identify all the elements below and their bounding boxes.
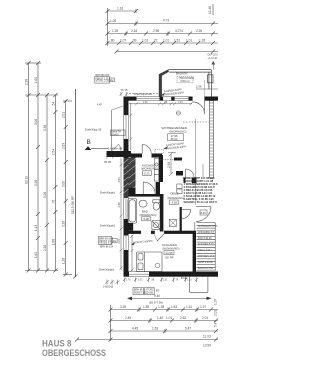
svg-text:BALKON: BALKON bbox=[176, 72, 187, 76]
long arrow dimension 9.40 bbox=[128, 297, 207, 299]
svg-text:1.39: 1.39 bbox=[112, 29, 118, 33]
ceiling symbol circle living bbox=[176, 111, 180, 115]
niche/duct wall mass bbox=[129, 158, 136, 197]
svg-text:312.5 OK RF: 312.5 OK RF bbox=[71, 196, 75, 215]
bed bbox=[137, 252, 163, 272]
svg-text:1.01: 1.01 bbox=[163, 39, 169, 43]
legend boxes bottom bbox=[133, 288, 154, 295]
svg-text:13.99: 13.99 bbox=[203, 344, 211, 348]
svg-text:(WOHNUNG): (WOHNUNG) bbox=[163, 246, 180, 250]
svg-text:2.38: 2.38 bbox=[117, 202, 121, 208]
svg-text:1.88: 1.88 bbox=[51, 239, 55, 245]
stair text smudges bbox=[198, 225, 218, 270]
svg-text:BAD 5.96 88: BAD 5.96 88 bbox=[198, 237, 212, 240]
interior wall horizontal (living/south of west wing) bbox=[131, 154, 162, 158]
door hall to right room bbox=[182, 210, 191, 219]
neighbor door box bbox=[200, 210, 207, 215]
wall bath/bedroom bbox=[124, 231, 197, 234]
svg-text:2.01: 2.01 bbox=[202, 316, 208, 320]
svg-text:2.26: 2.26 bbox=[43, 245, 47, 251]
svg-text:3.274: 3.274 bbox=[175, 29, 183, 33]
svg-text:.80: .80 bbox=[110, 39, 115, 43]
svg-text:3.06: 3.06 bbox=[34, 119, 38, 125]
dashed line under top-right door bbox=[183, 121, 209, 123]
svg-text:1.01: 1.01 bbox=[138, 280, 143, 282]
bathtub bbox=[128, 199, 137, 224]
svg-text:1.01: 1.01 bbox=[166, 316, 172, 320]
legend boxes top left bbox=[95, 77, 115, 84]
svg-text:1.63: 1.63 bbox=[152, 327, 158, 331]
svg-text:B©: B© bbox=[156, 290, 160, 293]
svg-text:60/60: 60/60 bbox=[112, 132, 119, 136]
bath top wall bbox=[129, 194, 164, 197]
svg-text:1.62: 1.62 bbox=[34, 252, 38, 258]
svg-text:2.45: 2.45 bbox=[125, 316, 131, 320]
svg-text:2.06: 2.06 bbox=[196, 85, 202, 89]
bottom dimension block bbox=[75, 305, 218, 342]
dimension chain left D bbox=[53, 93, 57, 273]
svg-text:5.47: 5.47 bbox=[214, 321, 218, 327]
svg-text:2.62: 2.62 bbox=[180, 316, 186, 320]
svg-text:5.23: 5.23 bbox=[144, 171, 150, 175]
svg-text:1.97: 1.97 bbox=[214, 299, 218, 305]
interior dim row under top wall bbox=[129, 102, 193, 105]
kitchen-bath connector wall bbox=[156, 182, 160, 194]
west outer dim line bbox=[120, 158, 123, 270]
legend boxes mid-left bbox=[98, 237, 117, 245]
svg-text:5.96: 5.96 bbox=[144, 217, 150, 221]
svg-text:1-DREH 84: 1-DREH 84 bbox=[108, 147, 123, 151]
svg-text:DIELE 3.93 1: DIELE 3.93 1 bbox=[198, 249, 213, 252]
balcony door in top wall bbox=[163, 97, 171, 101]
svg-text:10.19: 10.19 bbox=[25, 176, 29, 184]
svg-text:1.16: 1.16 bbox=[117, 7, 123, 11]
svg-text:1.97: 1.97 bbox=[200, 305, 206, 309]
svg-text:1.89: 1.89 bbox=[143, 305, 149, 309]
svg-text:(WOHNUNG): (WOHNUNG) bbox=[168, 196, 185, 200]
svg-text:.76: .76 bbox=[51, 200, 55, 205]
svg-text:BALKON 3.50: BALKON 3.50 bbox=[198, 267, 214, 270]
svg-text:ANKLEIDE 3.3: ANKLEIDE 3.3 bbox=[198, 231, 214, 234]
neighbor room text rows bbox=[183, 176, 218, 204]
svg-text:49.02: 49.02 bbox=[171, 137, 178, 141]
svg-text:4.45: 4.45 bbox=[132, 327, 138, 331]
exterior wall left bbox=[124, 97, 129, 277]
svg-text:124 88: 124 88 bbox=[146, 292, 154, 295]
svg-text:Dreh/Kipp(r): Dreh/Kipp(r) bbox=[100, 224, 115, 228]
svg-text:ABST 2.40 88: ABST 2.40 88 bbox=[198, 261, 214, 264]
section line B bbox=[71, 89, 108, 279]
svg-text:3.39: 3.39 bbox=[120, 305, 126, 309]
neighbor door arc right bbox=[196, 207, 211, 222]
kitchen appliance rects bbox=[177, 184, 182, 194]
window w2 in top wall bbox=[175, 97, 189, 101]
interior dim vertical in hall bbox=[168, 152, 176, 176]
svg-text:.72: .72 bbox=[153, 39, 158, 43]
svg-text:1.26: 1.26 bbox=[62, 258, 66, 264]
svg-text:1.51: 1.51 bbox=[186, 305, 192, 309]
svg-text:2.01: 2.01 bbox=[62, 112, 66, 118]
bedroom interior dim bbox=[131, 235, 134, 272]
svg-text:3.26: 3.26 bbox=[43, 192, 47, 198]
svg-text:5.47: 5.47 bbox=[185, 327, 191, 331]
svg-text:Dreh/Kipp/100: Dreh/Kipp/100 bbox=[134, 92, 152, 96]
svg-text:B: B bbox=[87, 139, 91, 146]
small circle bedroom bbox=[155, 263, 160, 268]
svg-text:2.18: 2.18 bbox=[131, 29, 137, 33]
label box west bbox=[111, 130, 126, 136]
door arc kitchen top bbox=[142, 145, 151, 154]
svg-text:1.38: 1.38 bbox=[158, 305, 164, 309]
svg-text:1.07: 1.07 bbox=[120, 39, 126, 43]
dimension chain left B bbox=[36, 61, 40, 273]
svg-text:DIELE: DIELE bbox=[171, 191, 179, 195]
svg-text:2.64: 2.64 bbox=[117, 177, 121, 183]
svg-text:3-60/2-60: 3-60/2-60 bbox=[103, 286, 114, 289]
svg-text:HAUS 8: HAUS 8 bbox=[42, 338, 72, 348]
window in left wall upper bbox=[124, 115, 129, 139]
kitchen counter with sink bbox=[154, 158, 159, 181]
svg-text:1.05: 1.05 bbox=[110, 19, 116, 23]
kitchen door arc bottom bbox=[143, 182, 155, 194]
window in left wall bedroom bbox=[124, 236, 129, 251]
svg-text:1.01: 1.01 bbox=[163, 280, 168, 282]
svg-text:1.76: 1.76 bbox=[126, 280, 131, 282]
neighbor stair treads bbox=[197, 223, 216, 271]
svg-text:2.95: 2.95 bbox=[153, 29, 159, 33]
svg-text:1.01: 1.01 bbox=[142, 39, 148, 43]
svg-text:1.63: 1.63 bbox=[178, 102, 183, 104]
svg-text:Dreh/Kipp(r): Dreh/Kipp(r) bbox=[100, 191, 115, 195]
svg-text:(WOHNUNG): (WOHNUNG) bbox=[141, 167, 158, 171]
svg-text:OK RF: OK RF bbox=[165, 255, 174, 259]
svg-text:9.73: 9.73 bbox=[163, 19, 169, 23]
door to right room leaf and arc bbox=[186, 169, 195, 178]
dimension chain left E bbox=[63, 99, 72, 277]
svg-text:+A 12.46: +A 12.46 bbox=[208, 57, 218, 60]
window in left wall bath bbox=[124, 198, 129, 219]
svg-text:3.26: 3.26 bbox=[34, 180, 38, 186]
bath right wall bbox=[160, 194, 164, 232]
svg-text:3.00: 3.00 bbox=[62, 181, 66, 187]
vertical ext line right hall bbox=[202, 164, 204, 177]
plus marks under wall left bbox=[105, 280, 120, 285]
svg-text:BRH 86 124: BRH 86 124 bbox=[100, 246, 114, 249]
svg-text:SCHLAFEN 14.96: SCHLAFEN 14.96 bbox=[198, 225, 218, 228]
svg-text:3.26: 3.26 bbox=[62, 221, 66, 227]
window in bottom wall bbox=[129, 272, 149, 277]
shaft dark bbox=[127, 223, 134, 231]
svg-text:1.00: 1.00 bbox=[34, 77, 38, 83]
svg-text:35 95: 35 95 bbox=[104, 160, 111, 164]
svg-text:9.40: 9.40 bbox=[154, 294, 160, 298]
wall stub hall bbox=[176, 171, 183, 176]
ticks below bottom wall bbox=[123, 278, 198, 283]
svg-text:75 15: 75 15 bbox=[121, 88, 128, 92]
window w1 in top wall bbox=[137, 97, 160, 101]
svg-text:(82.5*7.96): (82.5*7.96) bbox=[149, 300, 163, 304]
exterior wall top bbox=[124, 97, 219, 101]
svg-text:OBERGESCHOSS: OBERGESCHOSS bbox=[42, 348, 106, 358]
svg-text:.99: .99 bbox=[132, 39, 137, 43]
exterior wall bottom bbox=[124, 272, 219, 277]
interior dim col right of left wall bbox=[129, 103, 132, 150]
svg-text:1.26: 1.26 bbox=[199, 39, 205, 43]
svg-text:STURZ 2.26: STURZ 2.26 bbox=[96, 80, 110, 83]
svg-text:3.50 m²: 3.50 m² bbox=[180, 79, 190, 83]
west entrance door leaf and arc bbox=[112, 144, 121, 151]
svg-text:8.65: 8.65 bbox=[201, 211, 207, 215]
wall hall top bbox=[174, 158, 182, 161]
svg-text:1.40: 1.40 bbox=[157, 316, 163, 320]
toilet bbox=[153, 200, 160, 210]
svg-text:KOCHEN 5.23: KOCHEN 5.23 bbox=[198, 243, 214, 246]
svg-text:B 124: B 124 bbox=[181, 277, 188, 280]
svg-text:Dreh/Kipp 55: Dreh/Kipp 55 bbox=[85, 128, 102, 132]
svg-text:2.63: 2.63 bbox=[62, 143, 66, 149]
svg-text:1.63: 1.63 bbox=[171, 305, 177, 309]
svg-text:WOHNFL. 50.44 m2 OKF 8: WOHNFL. 50.44 m2 OKF 8 bbox=[184, 200, 218, 204]
dashed box left of label bbox=[155, 149, 164, 153]
terrace edge line left bbox=[111, 110, 113, 151]
svg-text:14.96: 14.96 bbox=[166, 251, 173, 255]
washbasin bbox=[139, 200, 147, 207]
svg-text:1.51: 1.51 bbox=[174, 39, 180, 43]
shower bbox=[152, 221, 160, 230]
svg-text:2.54: 2.54 bbox=[51, 149, 55, 155]
bedroom door leaf bbox=[155, 234, 164, 241]
dimension chain left A bbox=[25, 61, 58, 273]
svg-text:12.46: 12.46 bbox=[208, 6, 212, 14]
floor cross square in hall bbox=[169, 219, 176, 226]
svg-text:1.01: 1.01 bbox=[186, 39, 192, 43]
dashed roof line left of balcony bbox=[129, 93, 159, 95]
svg-text:4 KF: 4 KF bbox=[97, 104, 103, 107]
west wing stub wall bbox=[107, 151, 132, 157]
svg-text:1.13: 1.13 bbox=[34, 225, 38, 231]
dimension chain left C bbox=[45, 93, 49, 273]
svg-text:2.38: 2.38 bbox=[167, 162, 171, 168]
wall hall/right room bbox=[184, 178, 186, 184]
neighbor balcony divider faint bbox=[204, 80, 206, 97]
hall right wall lower bbox=[180, 207, 182, 231]
svg-text:2.01: 2.01 bbox=[214, 310, 218, 316]
svg-text:WOHNEN 17.9: WOHNEN 17.9 bbox=[198, 255, 215, 258]
exterior wall right lower bbox=[193, 231, 196, 272]
svg-text:3.93: 3.93 bbox=[172, 200, 178, 204]
door opening top right with leaf and arc bbox=[192, 101, 204, 114]
svg-text:2.38: 2.38 bbox=[25, 79, 29, 85]
balcony bbox=[159, 69, 218, 96]
svg-text:Dreh/Kipp(r): Dreh/Kipp(r) bbox=[99, 268, 114, 272]
svg-text:2.26: 2.26 bbox=[143, 102, 148, 104]
threshold dashed living/hall bbox=[160, 159, 174, 161]
svg-text:2.01: 2.01 bbox=[117, 238, 121, 244]
svg-text:2.26: 2.26 bbox=[196, 29, 202, 33]
ticks below stub wall bbox=[106, 156, 115, 159]
top dimension block bbox=[106, 4, 219, 54]
svg-text:3.36: 3.36 bbox=[43, 125, 47, 131]
sub-wall open rect bbox=[190, 277, 208, 293]
right extension line bbox=[195, 119, 197, 205]
party wall ladder right bbox=[210, 101, 214, 179]
kitchen right wall bbox=[159, 155, 163, 182]
terrace diagonal bbox=[112, 106, 123, 110]
svg-text:11.03: 11.03 bbox=[203, 335, 211, 339]
svg-text:.54: .54 bbox=[51, 102, 55, 107]
